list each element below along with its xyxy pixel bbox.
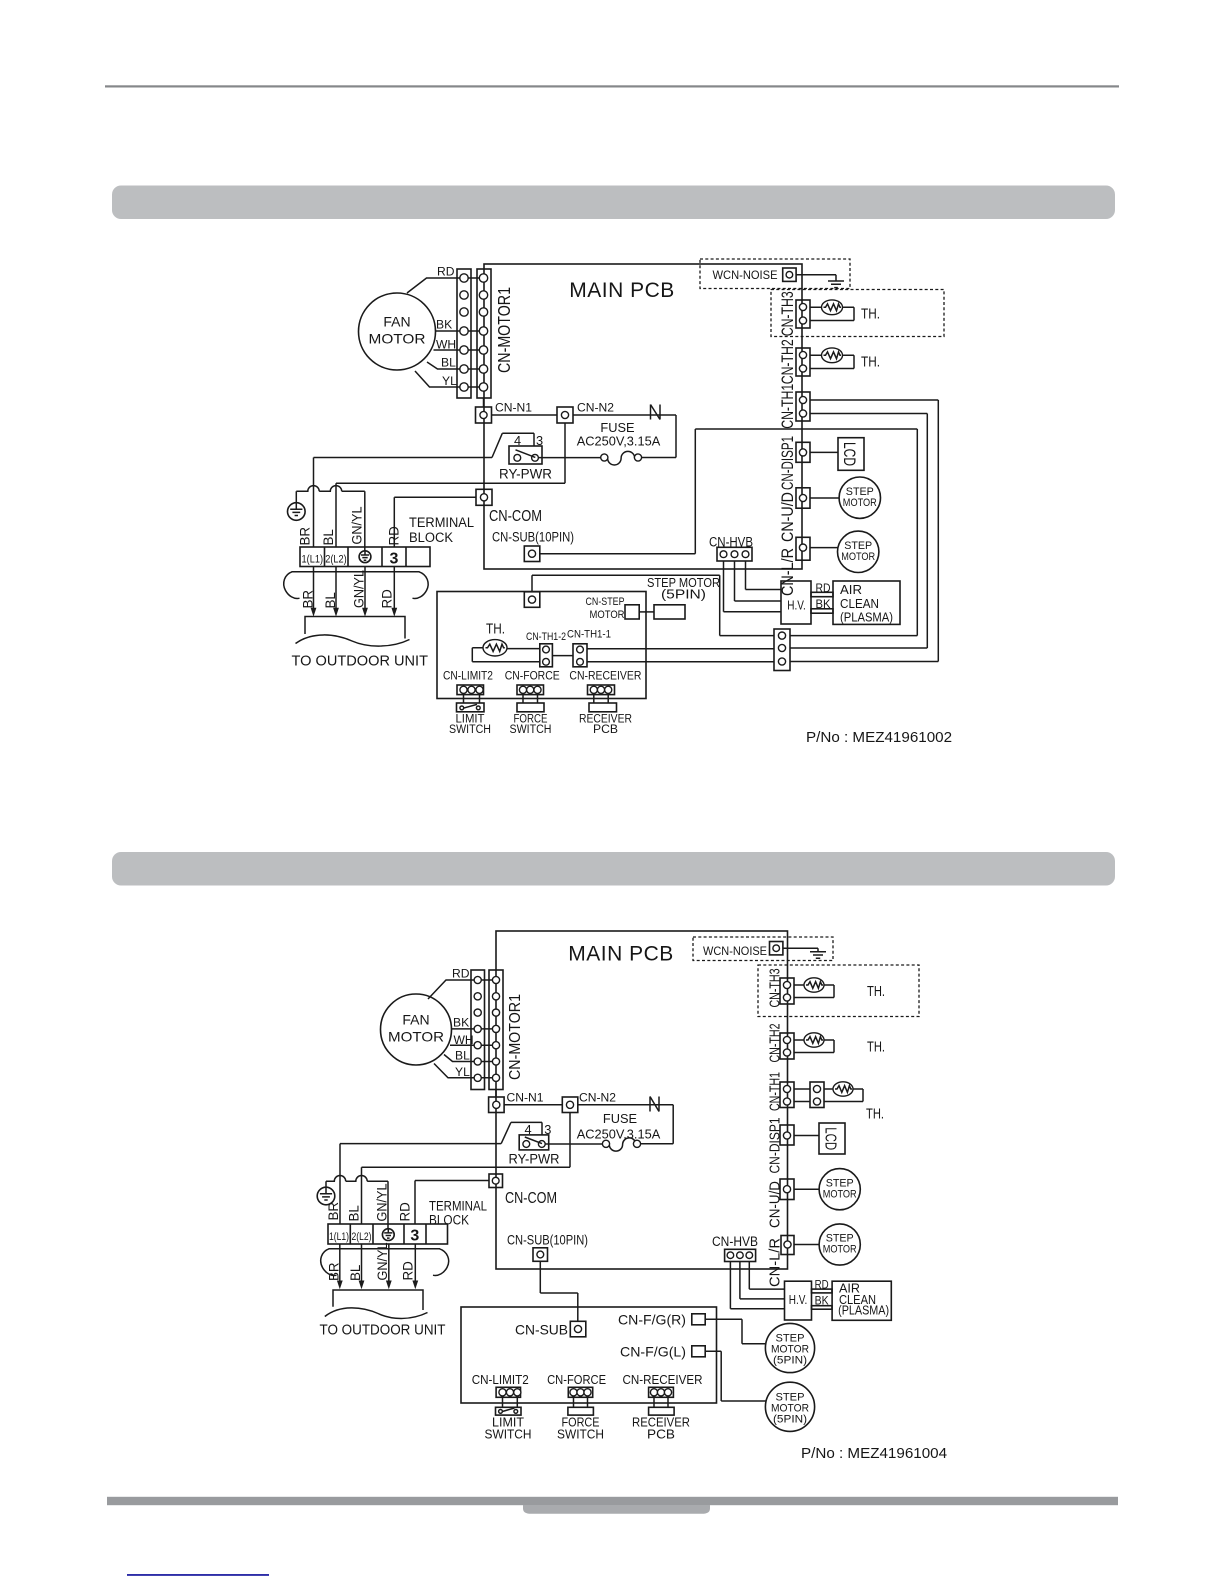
connector CN-RECEIVER xyxy=(588,685,615,695)
terminal block TB1 xyxy=(300,547,430,567)
svg-text:GN/YL: GN/YL xyxy=(375,1243,390,1281)
wire strip to CN-N1 xyxy=(483,398,485,407)
svg-text:CN-DISP1: CN-DISP1 xyxy=(767,1118,784,1174)
dashed enclosure WCN-NOISE xyxy=(700,259,850,289)
wire RD motor lead (2) xyxy=(428,980,478,999)
wire RD terminal 3 to CN-COM (2) xyxy=(415,1181,489,1225)
wire CN-HVB pin3 to H.V. xyxy=(746,561,782,590)
svg-text:RD: RD xyxy=(398,1202,413,1222)
limit switch LS2 xyxy=(496,1407,522,1415)
section banner 1 xyxy=(112,186,1115,220)
sub PCB outline (2) xyxy=(461,1307,717,1403)
connector bar BK (2) xyxy=(812,1306,833,1310)
svg-text:RY-PWR: RY-PWR xyxy=(499,467,552,482)
wire YL motor lead xyxy=(415,371,464,387)
wire WH motor lead xyxy=(434,349,465,351)
wire CN-HVB pin1 to H.V. (2) xyxy=(730,1262,784,1309)
svg-text:3: 3 xyxy=(390,550,399,567)
step motor SM3 xyxy=(819,1169,860,1210)
footer bar xyxy=(107,1497,1118,1505)
svg-text:SWITCH: SWITCH xyxy=(485,1427,532,1441)
svg-text:RY-PWR: RY-PWR xyxy=(509,1151,560,1166)
svg-text:(PLASMA): (PLASMA) xyxy=(840,609,893,624)
wire BR riser (2) xyxy=(339,1144,341,1224)
svg-text:BK: BK xyxy=(436,317,452,331)
LCD module (2) xyxy=(819,1123,845,1154)
junction strip J1 xyxy=(774,629,790,671)
svg-text:WH: WH xyxy=(436,337,456,351)
wire CN-TH1-2 to CN-TH1-1 xyxy=(552,655,573,657)
svg-text:CN-U/D: CN-U/D xyxy=(778,492,797,542)
limit switch LS1 xyxy=(457,703,485,712)
svg-text:BR: BR xyxy=(326,1202,341,1221)
connector CN-SUB (sub side) xyxy=(570,1321,586,1337)
relay RY-PWR (2) xyxy=(519,1135,549,1150)
svg-text:3: 3 xyxy=(410,1228,419,1245)
connector CN-DISP1 (2) xyxy=(780,1125,794,1145)
AIR CLEAN module (2) xyxy=(832,1281,891,1320)
wire to step motor 1 (2) xyxy=(794,1188,819,1190)
torn edge wave xyxy=(296,635,410,646)
svg-text:CN-TH3: CN-TH3 xyxy=(767,969,784,1008)
svg-text:CN-STEP: CN-STEP xyxy=(586,596,625,608)
svg-text:LCD: LCD xyxy=(822,1127,839,1150)
svg-text:H.V.: H.V. xyxy=(787,598,806,612)
svg-text:YL: YL xyxy=(455,1065,470,1079)
connector CN-LIMIT2 xyxy=(457,685,484,695)
thermistor TH2 xyxy=(822,348,843,363)
ground symbol E1 xyxy=(288,503,306,521)
connector CN-MOTOR1 strip A xyxy=(457,269,471,398)
wire CN-HVB pin3 to H.V. (2) xyxy=(749,1262,784,1290)
svg-text:CN-COM: CN-COM xyxy=(505,1190,557,1207)
svg-text:1(L1): 1(L1) xyxy=(329,1231,349,1243)
svg-text:CN-LIMIT2: CN-LIMIT2 xyxy=(472,1373,529,1387)
fan motor M2 xyxy=(381,994,452,1065)
svg-text:CN-TH1-1: CN-TH1-1 xyxy=(567,629,611,641)
wire to LCD xyxy=(810,451,838,453)
svg-text:CN-TH3: CN-TH3 xyxy=(778,291,797,336)
connector CN-DISP1 xyxy=(796,442,810,462)
svg-text:PCB: PCB xyxy=(593,722,618,736)
AIR CLEAN module xyxy=(833,581,900,624)
svg-text:(PLASMA): (PLASMA) xyxy=(838,1304,889,1318)
svg-text:CN-TH1: CN-TH1 xyxy=(778,384,797,429)
cable sheath left hook xyxy=(284,572,300,599)
svg-text:(5PIN): (5PIN) xyxy=(773,1414,807,1426)
section banner 2 xyxy=(112,852,1115,886)
CN-MOTOR1 pins column A xyxy=(460,274,468,391)
wire BL to outdoor with arrow xyxy=(333,567,339,617)
wire CN-HVB pin1 to H.V. xyxy=(724,561,782,612)
LCD module xyxy=(838,438,864,471)
svg-text:GN/YL: GN/YL xyxy=(352,570,367,608)
svg-text:TH.: TH. xyxy=(867,983,885,1000)
wire sub CN-SUB up and over to junction strip xyxy=(532,575,774,635)
connector CN-HVB (2) xyxy=(725,1249,756,1261)
svg-text:MOTOR: MOTOR xyxy=(823,1244,857,1256)
step motor SM4 xyxy=(819,1224,860,1265)
wires between strip pins (2) xyxy=(478,980,496,1078)
receiver pcb box xyxy=(589,703,617,712)
svg-text:CN-MOTOR1: CN-MOTOR1 xyxy=(507,994,524,1080)
svg-text:AC250V,3.15A: AC250V,3.15A xyxy=(577,434,661,449)
svg-text:RD: RD xyxy=(379,589,394,609)
step motor SM1 xyxy=(839,477,880,518)
connector bar RD (2) xyxy=(812,1289,833,1293)
force switch FS1 xyxy=(517,703,544,712)
fuse F2 xyxy=(602,1138,640,1151)
svg-text:BK: BK xyxy=(453,1016,469,1030)
svg-text:3: 3 xyxy=(536,433,543,448)
wires CN-RECEIVER to receiver pcb xyxy=(594,695,608,703)
dashed enclosure WCN-NOISE (2) xyxy=(693,937,833,961)
svg-text:TH.: TH. xyxy=(861,354,880,371)
cable sheath right hook (2) xyxy=(433,1249,449,1276)
wire BR to outdoor with arrow (2) xyxy=(337,1244,343,1289)
wire CN-N1 to CN-N2 xyxy=(492,414,558,416)
svg-text:CN-L/R: CN-L/R xyxy=(767,1238,784,1287)
connector CN-TH3 (2) xyxy=(780,978,794,1004)
outdoor cable box xyxy=(305,617,405,639)
svg-text:BL: BL xyxy=(348,1265,363,1281)
wire BR riser to relay xyxy=(313,458,315,548)
svg-text:2(L2): 2(L2) xyxy=(352,1231,372,1243)
wire WH motor lead (2) xyxy=(450,1044,478,1046)
connector CN-TH2 xyxy=(796,348,810,376)
connector CN-FORCE xyxy=(517,685,544,695)
wire to step motor 2 xyxy=(810,547,838,549)
svg-text:BR: BR xyxy=(326,1262,341,1281)
cable sheath right hook xyxy=(413,572,429,599)
wires CN-LIMIT2 to limit switch (2) xyxy=(503,1397,518,1407)
svg-text:3: 3 xyxy=(544,1122,551,1137)
wires CN-LIMIT2 to limit switch xyxy=(464,695,480,703)
svg-text:CN-FORCE: CN-FORCE xyxy=(505,669,560,683)
wire CN-SUB(10PIN) to sub CN-SUB xyxy=(540,1261,578,1321)
wire CN-HVB pin2 to H.V. xyxy=(735,561,782,601)
dashed enclosure CN-TH3 (2) xyxy=(758,965,919,1017)
svg-text:TERMINAL: TERMINAL xyxy=(429,1198,487,1213)
connector CN-FORCE (2) xyxy=(568,1387,592,1397)
connector CN-TH3 xyxy=(796,300,810,328)
svg-text:2(L2): 2(L2) xyxy=(325,554,347,566)
wire BL motor lead (2) xyxy=(444,1055,478,1062)
line break symbol N (2) xyxy=(650,1097,659,1112)
fuse F1 xyxy=(601,451,642,465)
wire to chassis ground (2) xyxy=(783,948,818,952)
svg-text:CN-RECEIVER: CN-RECEIVER xyxy=(623,1373,703,1387)
wire GN/YL to outdoor with arrow xyxy=(362,567,368,617)
connector CN-COM (2) xyxy=(489,1174,503,1188)
footer tab xyxy=(523,1505,710,1514)
connector WCN-NOISE xyxy=(783,268,796,281)
svg-text:TERMINAL: TERMINAL xyxy=(409,515,474,530)
svg-text:BL: BL xyxy=(441,356,456,370)
terminal earth symbol xyxy=(359,551,371,563)
svg-text:CN-TH1: CN-TH1 xyxy=(767,1072,784,1111)
svg-text:FUSE: FUSE xyxy=(603,1111,637,1126)
svg-text:4: 4 xyxy=(514,433,521,448)
wire RD motor lead xyxy=(407,278,464,293)
fan motor M1 xyxy=(359,293,436,370)
svg-text:CN-SUB(10PIN): CN-SUB(10PIN) xyxy=(507,1231,588,1247)
wires thermistor TH1 (2) xyxy=(824,1089,863,1102)
connector CN-RECEIVER (2) xyxy=(649,1387,674,1397)
connector CN-HVB xyxy=(717,547,752,561)
outdoor cable box (2) xyxy=(333,1290,423,1310)
wire GN/YL drop to earth terminal xyxy=(364,491,366,550)
svg-text:WCN-NOISE: WCN-NOISE xyxy=(713,268,778,282)
CN-MOTOR1 pins column A (2) xyxy=(474,976,481,1081)
svg-text:H.V.: H.V. xyxy=(789,1293,808,1307)
connector CN-L/R (2) xyxy=(781,1236,794,1255)
svg-text:4: 4 xyxy=(524,1122,531,1137)
connector CN-TH1-2 xyxy=(540,644,553,667)
connector CN-U/D (2) xyxy=(780,1179,794,1200)
wire strip to CN-N1 (2) xyxy=(495,1090,497,1098)
dashed enclosure CN-TH3 xyxy=(771,290,944,337)
wire CN-N1 to CN-N2 (2) xyxy=(504,1104,562,1106)
sub PCB outline xyxy=(437,592,646,699)
cable sheath left hook (2) xyxy=(321,1249,337,1276)
svg-text:(5PIN): (5PIN) xyxy=(661,588,706,602)
svg-text:CN-SUB(10PIN): CN-SUB(10PIN) xyxy=(492,530,574,546)
svg-text:CN-U/D: CN-U/D xyxy=(767,1181,784,1228)
connector CN-TH1-1 xyxy=(573,644,587,667)
connector CN-L/R xyxy=(796,537,810,560)
connector CN-N1 xyxy=(476,407,492,423)
svg-text:MOTOR: MOTOR xyxy=(590,609,625,621)
svg-text:YL: YL xyxy=(442,374,457,388)
wire CN-TH1-1 pin1 to strip xyxy=(587,648,774,650)
connector CN-TH2 (2) xyxy=(780,1033,794,1059)
svg-text:TH.: TH. xyxy=(861,306,880,323)
wire CN-TH1 pin2 to junction strip xyxy=(790,414,927,649)
svg-text:CN-N1: CN-N1 xyxy=(507,1091,544,1105)
connector CN-COM xyxy=(476,489,492,505)
svg-text:RD: RD xyxy=(437,265,455,279)
connector bar BK xyxy=(811,609,833,613)
svg-text:FAN: FAN xyxy=(383,314,410,330)
svg-text:CN-MOTOR1: CN-MOTOR1 xyxy=(494,287,514,373)
svg-text:CN-N1: CN-N1 xyxy=(495,401,532,415)
wire to 5pin step motor xyxy=(639,611,654,613)
torn edge wave (2) xyxy=(325,1308,428,1319)
svg-text:P/No : MEZ41961004: P/No : MEZ41961004 xyxy=(801,1445,947,1462)
svg-text:MOTOR: MOTOR xyxy=(823,1188,857,1200)
thermistor TH2 (2) xyxy=(804,1033,824,1047)
svg-text:LCD: LCD xyxy=(840,442,858,466)
wire relay coil path (2) xyxy=(340,1122,542,1143)
svg-text:RD: RD xyxy=(400,1261,415,1281)
wire RD terminal 3 to CN-COM xyxy=(394,497,476,547)
wires thermistor TH3 (2) xyxy=(794,985,834,998)
cable sheath top line (2) xyxy=(329,1248,441,1250)
cable sheath top line xyxy=(292,571,420,573)
CN-MOTOR1 pins column B (2) xyxy=(492,976,499,1081)
connector CN-N1 (2) xyxy=(489,1097,505,1113)
wire CN-SUB to junction strip xyxy=(540,429,918,636)
step motor SM2 xyxy=(838,531,879,572)
connector CN-F/G(L) xyxy=(692,1346,705,1357)
svg-text:(5PIN): (5PIN) xyxy=(773,1355,807,1367)
wires CN-TH1 to junction (2) xyxy=(794,1089,810,1102)
chassis ground symbol (2) xyxy=(810,952,826,958)
connector CN-MOTOR1 strip B (2) xyxy=(489,970,503,1090)
wire fuse to relay contact xyxy=(537,457,601,459)
thermistor TH1 (2) xyxy=(833,1082,853,1096)
wire CN-N2 down to terminal 2(L2) xyxy=(336,423,565,547)
thermistor leads xyxy=(472,648,540,662)
line break symbol N xyxy=(651,405,661,420)
wire BK motor lead (2) xyxy=(452,1028,478,1030)
svg-text:TO OUTDOOR UNIT: TO OUTDOOR UNIT xyxy=(320,1322,446,1338)
connector CN-STEP MOTOR xyxy=(625,605,639,619)
connector WCN-NOISE (2) xyxy=(770,942,783,955)
wire CN-TH1 pin1 to junction strip xyxy=(790,400,938,662)
svg-text:GN/YL: GN/YL xyxy=(350,507,365,545)
force switch FS2 xyxy=(568,1407,594,1415)
svg-text:1(L1): 1(L1) xyxy=(302,554,324,566)
svg-text:BR: BR xyxy=(301,590,316,609)
step motor (5PIN) R xyxy=(765,1323,814,1372)
svg-text:P/No : MEZ41961002: P/No : MEZ41961002 xyxy=(806,729,952,746)
svg-text:MOTOR: MOTOR xyxy=(369,331,426,347)
svg-text:CN-HVB: CN-HVB xyxy=(712,1234,758,1250)
wire CN-F/G(R) to step motor 5pin R xyxy=(705,1319,766,1344)
svg-text:MAIN PCB: MAIN PCB xyxy=(569,279,675,302)
wires CN-FORCE to force switch xyxy=(523,695,538,703)
svg-text:BL: BL xyxy=(321,529,336,545)
wire CN-N2 down to terminal 2(L2) (2) xyxy=(362,1113,571,1225)
svg-text:CN-F/G(L): CN-F/G(L) xyxy=(620,1344,686,1359)
wires between strip pins xyxy=(464,278,484,387)
H.V. module (2) xyxy=(785,1281,812,1320)
STEP MOTOR (5PIN) box xyxy=(654,605,685,619)
wire to step motor 2 (2) xyxy=(794,1244,819,1246)
svg-text:GN/YL: GN/YL xyxy=(375,1184,390,1222)
svg-text:TH.: TH. xyxy=(866,1106,884,1123)
wire BR to outdoor with arrow xyxy=(311,567,317,617)
svg-text:FAN: FAN xyxy=(402,1012,429,1028)
svg-text:BLOCK: BLOCK xyxy=(409,530,453,545)
connector CN-F/G(R) xyxy=(692,1314,705,1325)
connector CN-TH1 xyxy=(796,392,810,421)
svg-text:WCN-NOISE: WCN-NOISE xyxy=(703,944,767,958)
terminal block TB2 xyxy=(328,1224,448,1244)
svg-text:RD: RD xyxy=(387,526,402,546)
top rule xyxy=(105,85,1119,87)
connector CN-SUB (sub PCB side) xyxy=(524,592,540,608)
step motor (5PIN) L xyxy=(765,1382,814,1431)
svg-text:CN-TH2: CN-TH2 xyxy=(778,339,797,384)
svg-text:SWITCH: SWITCH xyxy=(557,1427,604,1441)
wire CN-TH1-1 pin2 to strip xyxy=(587,661,774,663)
main PCB U1 outline xyxy=(484,264,802,569)
wire CN-F/G(L) to step motor 5pin L xyxy=(705,1351,766,1401)
wire CN-N2 to fuse (2) xyxy=(578,1105,673,1144)
wires CN-FORCE to force switch (2) xyxy=(574,1397,588,1407)
H.V. module xyxy=(781,581,811,624)
terminal earth symbol (2) xyxy=(382,1229,394,1241)
footer blue underline xyxy=(127,1574,269,1576)
svg-text:CN-N2: CN-N2 xyxy=(579,1091,616,1105)
wires CN-RECEIVER to receiver pcb (2) xyxy=(654,1397,668,1407)
svg-text:TH.: TH. xyxy=(867,1038,885,1055)
svg-text:CN-F/G(R): CN-F/G(R) xyxy=(618,1312,686,1327)
main PCB U2 outline xyxy=(496,931,788,1269)
wire RD to outdoor with arrow (2) xyxy=(412,1244,418,1289)
svg-text:BL: BL xyxy=(455,1049,470,1063)
svg-text:BL: BL xyxy=(347,1205,362,1221)
wire YL motor lead (2) xyxy=(434,1064,478,1078)
svg-text:CN-COM: CN-COM xyxy=(489,508,542,525)
svg-text:CN-N2: CN-N2 xyxy=(577,401,614,415)
svg-text:BR: BR xyxy=(298,527,313,546)
svg-text:RD: RD xyxy=(452,967,470,981)
svg-text:AC250V,3.15A: AC250V,3.15A xyxy=(577,1127,661,1142)
wire BL motor lead xyxy=(427,362,464,369)
wire GN/YL to outdoor with arrow (2) xyxy=(386,1244,392,1289)
connector CN-LIMIT2 (2) xyxy=(496,1387,521,1397)
svg-text:TH.: TH. xyxy=(486,621,505,638)
connector CN-MOTOR1 strip A (2) xyxy=(471,970,485,1090)
wire CN-HVB pin2 to H.V. (2) xyxy=(740,1262,785,1299)
wire fuse to relay contact (2) xyxy=(545,1143,603,1145)
ground symbol E2 xyxy=(317,1187,335,1205)
wire to LCD (2) xyxy=(794,1135,819,1137)
svg-text:CN-SUB: CN-SUB xyxy=(515,1322,568,1338)
svg-text:TO OUTDOOR UNIT: TO OUTDOOR UNIT xyxy=(292,653,429,669)
connector CN-MOTOR1 strip B xyxy=(477,269,491,398)
CN-MOTOR1 pins column B xyxy=(479,274,487,391)
wires thermistor TH3 xyxy=(810,307,854,320)
svg-text:MAIN PCB: MAIN PCB xyxy=(568,943,674,966)
chassis ground symbol xyxy=(828,281,844,288)
wire to chassis ground xyxy=(796,275,836,281)
wire BK motor lead xyxy=(436,330,465,332)
svg-text:BLOCK: BLOCK xyxy=(429,1213,469,1228)
wires thermistor TH2 (2) xyxy=(794,1040,834,1053)
thermistor TH3 xyxy=(822,300,843,315)
thermistor TH (sub) xyxy=(483,640,507,656)
svg-text:PCB: PCB xyxy=(647,1427,675,1441)
svg-text:SWITCH: SWITCH xyxy=(449,722,491,736)
connector CN-N2 (2) xyxy=(562,1097,578,1113)
svg-text:CN-FORCE: CN-FORCE xyxy=(547,1373,606,1387)
wire RD to outdoor with arrow xyxy=(391,567,397,617)
connector bar RD xyxy=(811,592,833,596)
svg-text:SWITCH: SWITCH xyxy=(510,722,552,736)
svg-text:CN-RECEIVER: CN-RECEIVER xyxy=(569,669,641,683)
wire to step motor 1 xyxy=(810,497,839,499)
wire GN/YL drop (2) xyxy=(387,1181,389,1229)
svg-text:CN-TH2: CN-TH2 xyxy=(767,1024,784,1063)
connector CN-SUB(10PIN) xyxy=(524,546,540,562)
svg-text:MOTOR: MOTOR xyxy=(841,551,875,563)
svg-text:CN-LIMIT2: CN-LIMIT2 xyxy=(443,669,493,683)
connector CN-TH1 (2) xyxy=(780,1082,794,1108)
receiver pcb box (2) xyxy=(649,1407,675,1415)
svg-text:MOTOR: MOTOR xyxy=(388,1029,444,1045)
thermistor TH3 (2) xyxy=(804,978,824,992)
svg-text:BL: BL xyxy=(323,592,338,608)
wire relay coil path xyxy=(314,433,535,457)
wire earth to GN/YL with humps xyxy=(296,486,365,503)
junction connector CN-TH1 (2) xyxy=(810,1082,824,1108)
wires thermistor TH2 xyxy=(810,355,854,368)
